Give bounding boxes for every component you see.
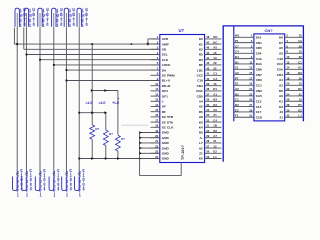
svg-text:24: 24 <box>286 92 289 96</box>
wire bus to pin20 <box>140 137 160 139</box>
svg-text:Z1: Z1 <box>199 152 203 156</box>
svg-text:SC PWM: SC PWM <box>162 74 175 78</box>
svg-text:4: 4 <box>30 186 33 191</box>
svg-text:C1: C1 <box>298 60 302 64</box>
svg-text:R?: R? <box>95 127 99 131</box>
CN1 left pin stub 14 <box>234 106 254 108</box>
svg-text:27: 27 <box>249 103 252 107</box>
svg-text:1: 1 <box>39 193 42 198</box>
U1 right pin stub 38 <box>205 90 222 92</box>
capacitor C8 value <box>30 169 32 191</box>
capacitor C4 refdes <box>56 8 58 26</box>
svg-text:B1: B1 <box>235 60 239 64</box>
wire R3 bottom <box>117 151 119 159</box>
U1 left pin stub 14 <box>151 106 160 108</box>
U1 left pin stub 4 <box>151 54 160 56</box>
U1 left pin stub 17 <box>151 121 160 123</box>
junction r-branch mid <box>104 89 107 92</box>
junction h1 branch <box>146 43 149 46</box>
svg-text:CDA: CDA <box>196 89 203 93</box>
capacitor C1 refdes <box>20 8 22 26</box>
svg-text:W1: W1 <box>235 34 240 38</box>
svg-text:35: 35 <box>206 103 209 107</box>
svg-text:+: + <box>118 97 120 101</box>
svg-text:C4: C4 <box>213 118 217 122</box>
svg-text:A1: A1 <box>199 146 203 150</box>
svg-text:C13: C13 <box>256 99 262 103</box>
svg-text:43: 43 <box>206 61 209 65</box>
svg-text:10: 10 <box>155 82 158 86</box>
junction bus pin21 <box>139 142 142 145</box>
wire h2 <box>24 48 160 50</box>
svg-text:46: 46 <box>206 46 209 50</box>
U1 right pin stub 37 <box>205 95 222 97</box>
U1 right pin stub 31 <box>205 126 222 128</box>
right rail wire <box>302 26 304 121</box>
junction h4 <box>39 59 41 61</box>
junction v7 top <box>91 43 93 45</box>
CN1 right pin stub 18 <box>285 79 304 81</box>
svg-text:A2: A2 <box>235 87 239 91</box>
svg-text:L1: L1 <box>213 155 217 159</box>
wire stub to h2 <box>23 28 25 50</box>
svg-text:12: 12 <box>299 34 303 38</box>
svg-text:30: 30 <box>286 108 289 112</box>
svg-text:A5: A5 <box>279 51 283 55</box>
capacitor C5 refdes <box>69 8 71 26</box>
capacitor CC value <box>83 169 85 191</box>
capacitor CA cup plate <box>49 177 54 191</box>
capacitor C9 value <box>43 169 45 191</box>
svg-text:C17: C17 <box>256 110 262 114</box>
svg-text:E2: E2 <box>298 108 302 112</box>
svg-text:SC DTA: SC DTA <box>162 120 174 124</box>
U1 left pin stub 23 <box>151 152 160 154</box>
junction bus pin19 <box>139 131 142 134</box>
svg-text:K4: K4 <box>199 126 203 130</box>
U1 left pin stub 7 <box>151 69 160 71</box>
svg-text:10: 10 <box>286 55 289 59</box>
svg-text:C7: C7 <box>235 44 239 48</box>
CN1 right pin stub 14 <box>285 68 304 70</box>
svg-text:8: 8 <box>33 22 36 27</box>
CN1 left pin stub 11 <box>234 90 254 92</box>
svg-text:22: 22 <box>213 66 217 70</box>
svg-text:F1: F1 <box>235 114 239 118</box>
wire branch to pin1 <box>147 39 149 44</box>
svg-text:1: 1 <box>79 193 82 198</box>
wire bus to pin22 <box>140 147 160 149</box>
U1 left pin stub 16 <box>151 116 160 118</box>
svg-text:16: 16 <box>213 82 217 86</box>
svg-text:D4: D4 <box>235 55 239 59</box>
svg-text:CLK: CLK <box>162 58 169 62</box>
svg-text:CD0: CD0 <box>256 78 262 82</box>
U1 right pin stub 33 <box>205 116 222 118</box>
svg-text:CC2: CC2 <box>277 62 283 66</box>
svg-text:D5: D5 <box>279 89 283 93</box>
svg-text:AMP: AMP <box>162 42 169 46</box>
svg-text:E3: E3 <box>235 108 239 112</box>
wire v7 <box>91 44 93 125</box>
svg-text:29: 29 <box>213 61 217 65</box>
U1 left pin stub 15 <box>151 111 160 113</box>
svg-text:C1: C1 <box>235 98 239 102</box>
svg-text:15: 15 <box>213 51 217 55</box>
svg-text:Z1: Z1 <box>213 113 217 117</box>
CN1 right pin stub 24 <box>285 95 304 97</box>
svg-text:27: 27 <box>206 144 209 148</box>
capacitor C4 body <box>52 8 56 27</box>
svg-text:C16: C16 <box>197 79 203 83</box>
bus vertical <box>222 26 224 162</box>
svg-text:1: 1 <box>69 23 72 28</box>
U1 left pin stub 6 <box>151 64 160 66</box>
junction h5 <box>53 64 55 66</box>
svg-text:KD: KD <box>213 35 217 39</box>
svg-text:CN1: CN1 <box>256 41 262 45</box>
svg-text:14: 14 <box>286 66 289 70</box>
svg-text:15: 15 <box>299 50 303 54</box>
wire r-branch down <box>117 91 119 135</box>
svg-text:33: 33 <box>206 113 209 117</box>
U1 right pin stub 47 <box>205 43 222 45</box>
svg-text:A5: A5 <box>213 46 217 50</box>
svg-text:CA5: CA5 <box>256 94 262 98</box>
capacitor C9 refdes <box>40 171 42 196</box>
svg-text:23: 23 <box>280 110 284 114</box>
svg-text:AF: AF <box>162 105 166 109</box>
U1 right pin stub 29 <box>205 137 222 139</box>
svg-text:CN6: CN6 <box>256 67 262 71</box>
svg-text:SD: SD <box>162 48 167 52</box>
CN1 right pin stub 20 <box>285 84 304 86</box>
svg-text:K2: K2 <box>199 48 203 52</box>
svg-text:1: 1 <box>29 23 32 28</box>
capacitor CA refdes <box>53 171 55 196</box>
wire h3 <box>26 54 159 56</box>
CN1 right pin stub 26 <box>285 100 304 102</box>
U1 right pin stub 34 <box>205 111 222 113</box>
wire h7 <box>66 80 159 82</box>
svg-text:C4A: C4A <box>256 57 263 61</box>
svg-text:25: 25 <box>206 155 209 159</box>
svg-text:21: 21 <box>299 92 303 96</box>
capacitor C1 value <box>24 8 26 25</box>
CN1 right pin stub 22 <box>285 90 304 92</box>
CN1 left pin stub 8 <box>234 74 254 76</box>
U1 right pin stub 44 <box>205 59 222 61</box>
CN1 left pin stub 10 <box>234 84 254 86</box>
svg-text:DD+R: DD+R <box>162 84 171 88</box>
svg-text:RF: RF <box>162 110 166 114</box>
svg-text:C15: C15 <box>256 105 262 109</box>
svg-text:A3: A3 <box>235 71 239 75</box>
svg-text:DA: DA <box>162 68 167 72</box>
svg-text:CC1: CC1 <box>256 83 262 87</box>
svg-text:21: 21 <box>249 87 252 91</box>
svg-text:K3: K3 <box>279 105 283 109</box>
capacitor CC arrow <box>78 173 81 176</box>
svg-text:C1: C1 <box>213 72 217 76</box>
capacitor CA arrow <box>53 173 56 176</box>
CN1 right pin stub 4 <box>285 42 304 44</box>
bus top horizontal <box>223 25 304 27</box>
svg-text:1B: 1B <box>213 124 217 128</box>
capacitor C1 inner lead <box>16 13 18 28</box>
capacitor C8 arrow <box>25 173 28 176</box>
svg-text:26: 26 <box>206 150 209 154</box>
svg-text:=L0: =L0 <box>99 100 107 105</box>
svg-text:19: 19 <box>249 82 252 86</box>
resistor R1 <box>90 125 95 140</box>
U1 left pin stub 13 <box>151 100 160 102</box>
U1 right pin stub 48 <box>205 38 222 40</box>
capacitor C5 inner lead <box>65 13 67 28</box>
capacitor C7 refdes <box>17 171 19 196</box>
junction bus pin20 <box>139 136 142 139</box>
capacitor C2 inner lead <box>25 13 27 28</box>
capacitor CC refdes <box>79 171 81 196</box>
capacitor CB value <box>70 169 72 191</box>
junction h1-v1 <box>16 43 18 45</box>
svg-text:D1: D1 <box>213 87 217 91</box>
U1 right pin stub 36 <box>205 100 222 102</box>
U1 right pin stub 28 <box>205 142 222 144</box>
CN1 right pin stub 6 <box>285 47 304 49</box>
svg-text:TP-101?: TP-101? <box>181 145 185 160</box>
U1 left pin stub 8 <box>151 74 160 76</box>
svg-text:30: 30 <box>206 129 209 133</box>
capacitor C4 inner lead <box>53 13 55 28</box>
junction bus pin23 <box>139 152 142 155</box>
capacitor C4 value <box>60 8 62 25</box>
svg-text:CD5: CD5 <box>197 94 203 98</box>
svg-text:8: 8 <box>60 22 63 27</box>
svg-text:1: 1 <box>53 193 56 198</box>
svg-text:A6: A6 <box>279 94 283 98</box>
CN1 left pin stub 9 <box>234 79 254 81</box>
U1 left pin stub 18 <box>151 126 160 128</box>
svg-text:45: 45 <box>206 51 209 55</box>
svg-text:R3: R3 <box>199 53 203 57</box>
svg-text:12: 12 <box>286 60 289 64</box>
svg-text:1: 1 <box>56 23 59 28</box>
svg-text:22: 22 <box>299 55 303 59</box>
svg-text:A1: A1 <box>298 66 302 70</box>
svg-text:SC STB: SC STB <box>162 115 174 119</box>
junction h6 <box>66 69 68 71</box>
svg-text:A2: A2 <box>199 105 203 109</box>
svg-text:13: 13 <box>155 98 158 102</box>
svg-text:A-: A- <box>200 136 203 140</box>
junction h9-v7 <box>91 111 94 114</box>
junction long wire <box>117 157 120 160</box>
svg-text:D1: D1 <box>298 87 302 91</box>
capacitor C7 value <box>21 169 23 191</box>
svg-text:P1: P1 <box>235 39 239 43</box>
CN1 right pin stub 10 <box>285 58 304 60</box>
svg-text:1: 1 <box>20 23 23 28</box>
svg-text:CN7: CN7 <box>256 73 262 77</box>
svg-text:D2: D2 <box>213 129 217 133</box>
wire bus to pin19 <box>140 132 160 134</box>
svg-text:23: 23 <box>249 92 252 96</box>
svg-text:31: 31 <box>249 114 252 118</box>
svg-text:D2: D2 <box>235 103 239 107</box>
U1 left pin stub 12 <box>151 95 160 97</box>
svg-text:K6: K6 <box>279 36 283 40</box>
junction long wire a <box>78 158 80 160</box>
U1 right pin stub 46 <box>205 48 222 50</box>
CN1 right pin stub 30 <box>285 111 304 113</box>
svg-text:47: 47 <box>206 40 209 44</box>
U1 right pin stub 27 <box>205 147 222 149</box>
svg-text:GND: GND <box>162 157 170 161</box>
svg-text:1: 1 <box>82 23 85 28</box>
svg-text:=L5: =L5 <box>86 100 94 105</box>
svg-text:26: 26 <box>286 98 289 102</box>
resistor R3 <box>116 135 121 151</box>
capacitor C6 value <box>86 8 88 25</box>
op-amp U1 main IC box <box>160 35 205 163</box>
svg-text:L1: L1 <box>298 114 302 118</box>
capacitor CB cup plate <box>62 177 67 191</box>
U1 left pin stub 24 <box>151 158 160 160</box>
svg-text:BL+U: BL+U <box>162 79 171 83</box>
U1 left pin stub 3 <box>151 48 160 50</box>
wire r-branch horizontal <box>92 90 118 92</box>
capacitor C2 value <box>33 8 35 25</box>
svg-text:B3: B3 <box>213 98 217 102</box>
CN1 right pin stub 32 <box>285 116 304 118</box>
CN1 left pin stub 4 <box>234 52 254 54</box>
svg-text:A5: A5 <box>279 46 283 50</box>
svg-text:44: 44 <box>206 56 209 60</box>
U1 right pin stub 32 <box>205 121 222 123</box>
svg-text:11: 11 <box>155 87 158 91</box>
svg-text:36: 36 <box>206 98 209 102</box>
svg-text:K1: K1 <box>199 42 203 46</box>
capacitor C3 inner lead <box>39 13 41 28</box>
svg-text:13: 13 <box>213 144 217 148</box>
svg-text:P7: P7 <box>235 76 239 80</box>
CN1 left pin stub 3 <box>234 47 254 49</box>
U1 right pin stub 26 <box>205 152 222 154</box>
faint wire <box>121 124 148 126</box>
U1 right pin stub 30 <box>205 132 222 134</box>
U1 left pin stub 2 <box>151 43 160 45</box>
capacitor C7 cup plate <box>13 177 18 191</box>
U1 left pin stub 1 <box>151 38 160 40</box>
U1 left pin stub 5 <box>151 59 160 61</box>
svg-text:A1: A1 <box>213 92 217 96</box>
svg-text:15: 15 <box>155 108 158 112</box>
CN1 left pin stub 2 <box>234 42 254 44</box>
svg-text:C1B: C1B <box>256 115 263 119</box>
capacitor CA value <box>57 169 59 191</box>
wire R1 bottom <box>91 139 93 158</box>
vertical wire 1 <box>16 28 18 174</box>
svg-text:29: 29 <box>299 44 303 48</box>
svg-text:A6: A6 <box>199 115 203 119</box>
CN1 right pin stub 16 <box>285 74 304 76</box>
CN1 left pin stub 16 <box>234 116 254 118</box>
CN1 left pin stub 6 <box>234 63 254 65</box>
svg-text:LRCK: LRCK <box>162 63 171 67</box>
svg-text:A0: A0 <box>213 108 217 112</box>
CN1 left pin stub 5 <box>234 58 254 60</box>
svg-text:10: 10 <box>299 82 303 86</box>
svg-text:A4: A4 <box>199 100 203 104</box>
wire R2 top <box>105 113 107 130</box>
svg-text:I-: I- <box>162 100 164 104</box>
svg-text:1: 1 <box>17 193 20 198</box>
junction h9 end <box>104 111 107 114</box>
svg-text:15: 15 <box>249 71 252 75</box>
svg-text:32: 32 <box>206 118 209 122</box>
svg-text:20: 20 <box>286 82 289 86</box>
svg-text:R5: R5 <box>199 63 203 67</box>
U1 right pin stub 35 <box>205 106 222 108</box>
junction h9 <box>78 112 80 114</box>
U1 left pin stub 10 <box>151 85 160 87</box>
svg-text:18: 18 <box>155 124 158 128</box>
svg-text:16: 16 <box>155 113 158 117</box>
svg-text:21: 21 <box>235 66 239 70</box>
capacitor C2 body <box>24 8 28 27</box>
U1 right pin stub 39 <box>205 85 222 87</box>
svg-text:CC2: CC2 <box>197 74 203 78</box>
svg-text:L7: L7 <box>199 141 203 145</box>
vertical wire 5 <box>65 28 67 174</box>
U1 right pin stub 25 <box>205 158 222 160</box>
svg-text:C04: C04 <box>256 51 262 55</box>
capacitor C9 arrow <box>39 173 42 176</box>
wire h4 <box>40 59 160 61</box>
capacitor C6 body <box>77 8 81 27</box>
svg-text:18: 18 <box>286 76 289 80</box>
svg-text:22: 22 <box>286 87 289 91</box>
svg-text:40: 40 <box>206 77 209 81</box>
svg-text:13: 13 <box>299 98 303 102</box>
svg-text:8: 8 <box>73 22 76 27</box>
svg-text:C16: C16 <box>277 57 283 61</box>
U1 right pin stub 45 <box>205 54 222 56</box>
svg-text:B2: B2 <box>235 92 239 96</box>
svg-text:E2: E2 <box>213 150 217 154</box>
svg-text:37: 37 <box>206 92 209 96</box>
capacitor CB refdes <box>66 171 68 196</box>
svg-text:1: 1 <box>66 193 69 198</box>
svg-text:+L5: +L5 <box>112 100 120 105</box>
svg-text:4: 4 <box>70 186 73 191</box>
svg-text:K7: K7 <box>279 41 283 45</box>
svg-text:38: 38 <box>206 87 209 91</box>
svg-text:29: 29 <box>206 134 209 138</box>
svg-text:21: 21 <box>280 115 284 119</box>
svg-text:R?: R? <box>109 132 113 136</box>
svg-text:E1: E1 <box>235 82 239 86</box>
left rail wire <box>233 26 235 121</box>
svg-text:CD4: CD4 <box>277 73 283 77</box>
CN1 right pin stub 8 <box>285 52 304 54</box>
capacitor C3 body <box>38 8 42 27</box>
svg-text:D5: D5 <box>199 131 203 135</box>
U1 left pin stub 20 <box>151 137 160 139</box>
svg-text:16: 16 <box>286 71 289 75</box>
svg-text:28: 28 <box>206 139 209 143</box>
